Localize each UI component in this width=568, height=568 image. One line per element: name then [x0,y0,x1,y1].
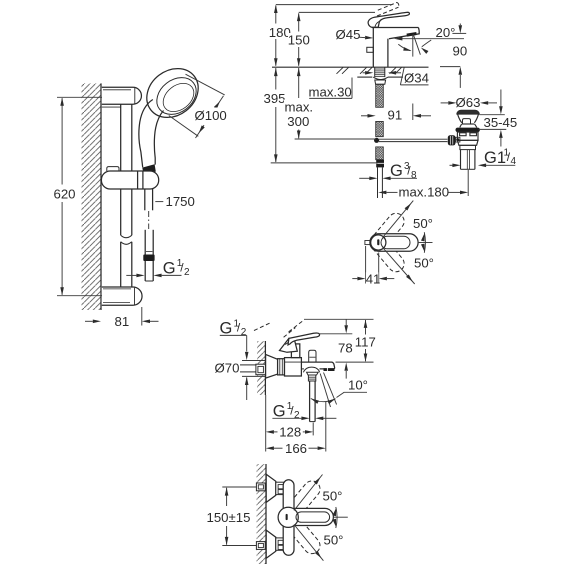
svg-text:G: G [390,162,403,180]
svg-text:Ø100: Ø100 [195,108,227,123]
svg-text:2: 2 [184,267,190,278]
svg-text:50°: 50° [323,489,343,504]
svg-text:2: 2 [294,410,300,421]
drain flange [457,110,480,114]
escutcheon cone [266,354,278,378]
dimension 150 / max.300 [295,12,376,139]
svg-text:78: 78 [338,341,353,356]
supply hose upper [376,84,384,107]
spout [285,361,302,363]
svg-text:90: 90 [453,44,468,59]
rod connector [456,137,460,142]
wall face line [100,83,102,310]
temperature stop tab [367,47,374,52]
pop-up rod junction [374,138,379,143]
wall hatch [82,83,102,310]
lock ring [460,145,476,149]
G3/8 connector nut [376,160,384,168]
rubber seal ring [456,128,480,133]
svg-text:150: 150 [288,33,310,48]
handle lever (front) [287,508,333,525]
svg-text:35-45: 35-45 [484,115,518,130]
cartridge column [291,344,299,358]
svg-text:Ø70: Ø70 [215,361,240,376]
label Ø45 [359,36,366,38]
union nut [278,359,285,375]
rail break symbol [121,235,132,238]
upper wall union square [256,483,265,491]
lower escutcheon cone [266,530,276,558]
dimension Ø63 [441,102,497,104]
dashed lever up position [281,478,324,524]
dimension 91 [361,104,431,121]
plug stem [463,119,471,124]
svg-text:117: 117 [355,335,376,350]
svg-text:395: 395 [264,91,286,106]
dimension 620 [57,97,102,295]
svg-text:41: 41 [366,271,381,286]
diverter knob [309,350,316,362]
countertop [272,67,429,77]
supply pipe stub [240,364,256,366]
hand shower handle [139,100,153,168]
label Ø34 [363,67,429,85]
dashed lever down position [281,511,324,557]
label 1750 [155,201,163,203]
label G3/8 [359,177,417,179]
handle pivot circle [278,507,298,527]
handle outline (top view) [370,234,418,251]
G3/8 tube [378,167,383,198]
upper union nut [276,482,286,494]
hand shower hose nut [142,164,156,174]
svg-text:G: G [273,402,286,420]
mixer body capsule [283,480,294,556]
svg-text:91: 91 [388,107,403,122]
lower union nut [276,538,286,550]
hose knurled nut [143,255,154,262]
slider bracket [101,171,158,189]
dimension 81 [85,307,159,326]
svg-text:166: 166 [285,441,307,456]
dimension 150±15 [222,487,257,546]
50° swing rays (top view) [383,201,433,284]
50° swing rays (front view) [294,475,348,561]
supply hose mid [376,121,384,136]
rail top foot [102,87,142,104]
svg-text:2: 2 [241,327,247,338]
dimension 41 [352,246,394,284]
hand shower head [137,58,208,127]
svg-text:128: 128 [279,424,301,439]
label G1/2 (bath, wall union) [220,335,266,400]
supply hose lower [376,147,384,160]
svg-text:G: G [220,320,233,338]
pivot tick [377,239,379,245]
dimension 180 / 395 (left column) [271,5,391,163]
shower hose upper [144,189,146,210]
rail tube [120,104,122,235]
svg-text:max.: max. [285,100,314,115]
hose break dash-dot [148,211,150,229]
svg-text:1750: 1750 [166,194,195,209]
inner lever [381,236,410,249]
wall union square [256,364,266,375]
svg-text:G: G [163,259,176,277]
dashed raised handle [254,320,304,337]
bracket knob [107,167,119,171]
dashed handle up position [369,210,408,252]
wall face line [265,464,267,564]
svg-text:10°: 10° [348,378,368,393]
hose end fitting G1/2 [144,261,146,281]
faucet body column [372,28,374,68]
threaded shank through counter [375,67,385,77]
svg-text:Ø63: Ø63 [456,95,481,110]
svg-text:8: 8 [411,170,417,181]
label G1/2 (shower hose outlet) [272,417,336,419]
label 20° [398,34,464,56]
handle lever [368,12,409,27]
svg-text:50°: 50° [324,533,344,548]
front stub [365,241,371,245]
spout aerator slot [324,368,335,371]
dashed handle down position [369,233,408,275]
svg-text:50°: 50° [414,256,434,271]
label G1 1/4 [450,164,516,166]
spout underside dome [303,367,319,372]
spout tip [389,28,419,39]
svg-text:20°: 20° [436,25,456,40]
dimension 90 [440,24,466,88]
pivot circle [371,235,386,250]
tailpiece G1 1/4 [460,150,462,170]
waste body [457,132,478,140]
shower hose lower [144,230,146,255]
svg-text:300: 300 [287,114,309,129]
spout aerator mark [407,32,417,37]
label max.30 [309,78,352,99]
wall hatch (side view) [257,341,265,395]
lower wall union square [256,542,265,550]
upper escutcheon cone [266,474,276,502]
svg-text:620: 620 [54,187,76,202]
pop-up waste assembly [448,110,480,169]
mixer body [285,358,302,376]
shower outlet tube [309,381,311,422]
handle base [280,338,298,352]
svg-text:150±15: 150±15 [207,510,251,525]
pop-up horizontal rod [379,139,448,141]
label G 1/2 (shower hose) [126,274,181,276]
shower outlet nut [307,372,319,375]
dimensions 78 / 117 [304,319,374,379]
pivot tick [286,514,288,520]
flare [460,124,462,127]
wall hatch (front view) [257,464,266,564]
wall face line [264,341,266,395]
rod knob [448,135,456,145]
rail bottom foot [102,287,142,305]
svg-text:81: 81 [115,314,130,329]
svg-text:Ø34: Ø34 [404,70,429,85]
dimension max.180 [386,170,468,196]
mounting washer and nut [373,77,388,79]
flange taper [458,114,462,123]
handle raised (dashed) [377,2,399,16]
dimension 35-45 [479,90,507,147]
svg-text:50°: 50° [413,216,433,231]
dimensions 128 / 166 [266,395,326,452]
svg-text:max.30: max.30 [309,85,352,100]
inner lever outline [296,512,330,522]
svg-text:4: 4 [511,156,517,167]
dimension Ø100 [169,74,225,138]
handle blade [288,333,320,345]
svg-text:max.180: max.180 [399,185,450,200]
label 10° [311,373,367,408]
body top / spout top edge [372,27,418,29]
svg-text:Ø45: Ø45 [336,27,361,42]
